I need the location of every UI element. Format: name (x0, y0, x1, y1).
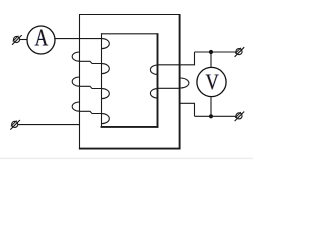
primary winding L1 : right arc turn 2 (102, 64, 109, 74)
wire ammeter to primary winding (55, 38, 102, 40)
wire junction to voltmeter top (210, 52, 212, 67)
terminal X2 (bottom-left) (10, 120, 20, 130)
secondary winding L2 : top wire (157, 52, 194, 65)
core outer rectangle (79, 14, 181, 150)
voltmeter U2 circle (197, 67, 226, 96)
node junction bottom (209, 114, 213, 118)
secondary winding L2 : bottom wire (180, 103, 195, 116)
primary winding L1 : right arc turn 3 (102, 89, 109, 99)
svg-text:A: A (34, 25, 48, 52)
terminal X4 (bottom-right) (235, 112, 245, 122)
primary winding L1 : left arc turn 3 (72, 102, 79, 111)
secondary winding L2 : right arc (180, 78, 189, 88)
wire secondary top to terminal X3 (195, 51, 237, 53)
wire voltmeter bottom to junction (210, 97, 212, 117)
primary winding L1 : right arc turn 4 (102, 114, 109, 124)
wire primary bottom to terminal X2 (18, 124, 80, 126)
primary winding L1 : right arc turn 1 (102, 39, 109, 49)
svg-text:V: V (206, 70, 220, 94)
primary winding L1 : crossing 1 (79, 61, 102, 63)
page separator line (0, 158, 253, 160)
primary winding L1 : left arc turn 2 (72, 77, 79, 86)
primary winding L1 : crossing 3 (79, 111, 102, 113)
primary winding L1 : left arc turn 1 (72, 52, 79, 61)
secondary winding L2 : crossing (157, 87, 180, 89)
secondary winding L2 : left arc turn 2 (150, 89, 157, 98)
primary winding L1 : crossing 2 (79, 86, 102, 88)
core inner rectangle (101, 33, 159, 127)
wire terminal X1 to ammeter (20, 39, 28, 41)
secondary winding L2 : left arc turn 1 (150, 65, 157, 74)
ammeter U1 circle (27, 26, 55, 54)
wire junction to terminal X4 (195, 115, 237, 117)
node junction top (209, 50, 213, 54)
terminal X1 (top-left) (12, 35, 22, 45)
terminal X3 (top-right) (235, 47, 245, 57)
